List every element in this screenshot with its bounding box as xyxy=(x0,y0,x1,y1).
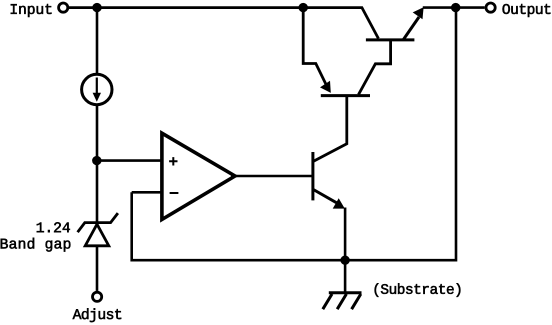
ground substrate chassis symbol xyxy=(329,291,362,294)
diode D1 zener triangle xyxy=(85,224,109,246)
transistor Q3 base bar xyxy=(311,152,314,200)
transistor Q1 base bar xyxy=(321,94,370,97)
node junction dot at output rail xyxy=(451,3,460,12)
wire output rail xyxy=(423,6,485,9)
transistor Q3 emitter with arrow xyxy=(313,190,341,206)
terminal Adjust xyxy=(93,292,102,301)
label 1.24 xyxy=(37,222,70,232)
terminal Input xyxy=(59,3,68,12)
transistor Q2 base bar xyxy=(366,38,415,41)
node junction dot at input rail xyxy=(92,3,101,12)
transistor Q2 emitter with arrow to output rail xyxy=(404,17,420,39)
node junction dot on bottom rail xyxy=(340,256,349,265)
wire zener to Adjust terminal xyxy=(96,246,99,291)
op-amp U1 plus symbol xyxy=(169,157,177,165)
op-amp U1 minus symbol xyxy=(170,192,179,194)
wire feedback loop: inverting input down, bottom rail, right rail up to output xyxy=(132,8,456,261)
wire left rail vertical xyxy=(96,8,99,223)
label (Substrate) xyxy=(375,283,461,297)
wire top rail from Input to Q2 collector bend xyxy=(69,8,378,39)
label Output xyxy=(503,4,551,17)
wire op-amp output to Q3 base xyxy=(231,175,312,178)
op-amp U1 triangle xyxy=(162,133,235,219)
current source I1 circle xyxy=(82,74,112,104)
label Adjust xyxy=(73,308,122,322)
label Input xyxy=(11,4,52,17)
diode D1 zener cathode bar with hooks xyxy=(78,213,118,232)
node junction dot at op-amp + input xyxy=(92,156,101,165)
current source I1 arrow xyxy=(96,78,98,96)
transistor Q1 emitter path with arrow into base xyxy=(303,8,328,90)
wire op-amp inverting input xyxy=(132,191,163,194)
transistor Q1 collector path to Q2 base xyxy=(359,41,391,95)
wire substrate lead xyxy=(344,260,347,292)
wire op-amp non-inverting input xyxy=(97,159,163,162)
wire Q3 emitter to bottom rail xyxy=(344,208,347,261)
node junction dot Q1 emitter at rail xyxy=(299,3,308,12)
transistor Q3 collector up to Q1 base xyxy=(314,97,347,162)
terminal Output xyxy=(486,3,495,12)
label Band gap xyxy=(1,238,71,252)
